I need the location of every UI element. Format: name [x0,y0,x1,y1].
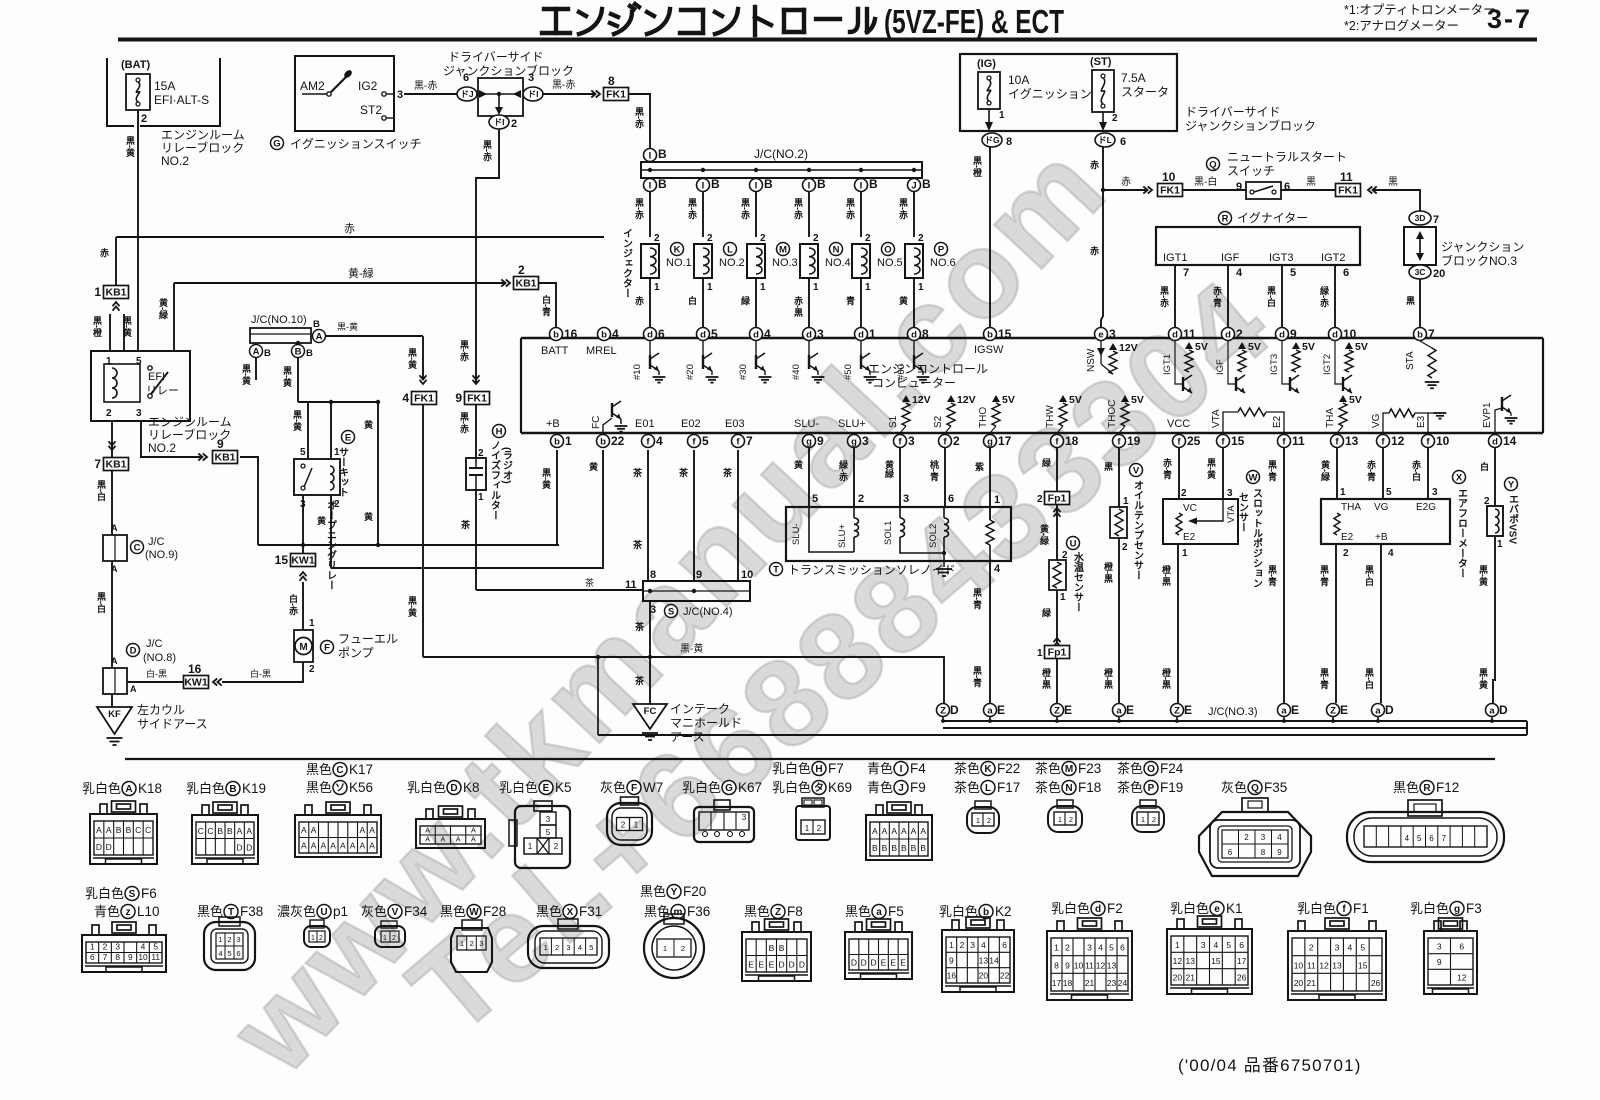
svg-text:g: g [1454,904,1460,915]
svg-text:乳白色: 乳白色 [499,780,538,795]
svg-text:赤-青: 赤-青 [1212,285,1222,308]
svg-text:5: 5 [1417,834,1422,843]
svg-text:R: R [1222,213,1229,224]
svg-text:B: B [658,177,667,191]
svg-text:KW1: KW1 [184,677,207,689]
svg-text:E2: E2 [1272,415,1283,428]
svg-text:THA: THA [1325,408,1336,428]
svg-text:e: e [1098,329,1103,340]
svg-text:2: 2 [918,233,924,244]
svg-text:M: M [1065,764,1073,775]
ECU top pin d1 [855,327,877,341]
svg-text:b: b [554,436,560,447]
svg-text:3: 3 [817,327,824,341]
svg-text:Fp1: Fp1 [1048,647,1067,659]
svg-text:2: 2 [1236,327,1243,341]
svg-text:A: A [920,826,926,836]
svg-text:1: 1 [565,434,572,448]
svg-text:19: 19 [1127,434,1141,448]
svg-text:17: 17 [1237,956,1247,966]
svg-text:A: A [911,826,917,836]
connector Q F35 [1199,798,1311,876]
svg-text:乳白色: 乳白色 [85,886,124,901]
svg-text:20: 20 [1173,972,1183,982]
svg-text:I: I [860,180,863,191]
svg-text:1: 1 [634,820,639,829]
svg-text:1: 1 [707,282,713,293]
svg-text:白: 白 [687,295,697,306]
svg-text:黒-黄: 黒-黄 [1478,565,1488,587]
svg-text:ニュートラルスタート: ニュートラルスタート [1227,150,1347,164]
wire FK1 11 to junction block NO.3 [1374,190,1420,211]
svg-text:FK1: FK1 [467,393,487,405]
svg-text:A: A [369,841,375,851]
svg-text:9: 9 [455,391,462,405]
W label throttle position sensor [1247,471,1260,484]
pin I B bottom x=756 [750,177,774,192]
ECU bottom pin f4 [642,434,664,448]
svg-text:N: N [1065,783,1072,794]
svg-text:A: A [301,825,307,835]
svg-text:C: C [336,765,343,776]
svg-text:黒-青: 黒-青 [972,588,982,610]
legend f F1 [1297,901,1369,916]
svg-text:11: 11 [1292,434,1305,448]
svg-text:11: 11 [1183,327,1196,341]
svg-text:3: 3 [1087,943,1092,953]
svg-text:d: d [858,329,864,340]
svg-text:黒-黄: 黒-黄 [122,316,132,338]
svg-text:X: X [567,907,574,918]
svg-text:1: 1 [976,816,980,825]
svg-text:ポンプ: ポンプ [338,646,374,660]
wire FK1 to switch [1183,189,1246,191]
svg-text:d: d [1492,436,1498,447]
svg-text:A: A [340,841,346,851]
svg-text:茶色: 茶色 [1035,761,1061,776]
svg-text:(IG): (IG) [977,58,996,70]
svg-text:2: 2 [858,493,864,505]
svg-text:A: A [237,826,243,836]
svg-text:3C: 3C [1415,267,1426,277]
pin A of J/C NO.10 [250,345,263,358]
svg-text:ドI: ドI [528,89,539,99]
ECU top pin b4 [598,327,620,341]
svg-text:15: 15 [275,553,289,567]
ECU right edge [1542,338,1544,433]
svg-text:4: 4 [1277,833,1282,842]
ECU top pin d11 [1169,327,1197,341]
svg-text:SOL2: SOL2 [928,524,939,548]
wire B pin down to relay feeds [297,358,299,402]
svg-text:L10: L10 [137,904,160,919]
svg-text:F34: F34 [404,904,428,919]
svg-text:2: 2 [1181,488,1187,499]
svg-text:E2: E2 [1183,532,1196,543]
svg-text:4: 4 [612,327,619,341]
svg-text:黄: 黄 [363,419,373,430]
svg-text:10: 10 [741,569,753,581]
svg-text:2: 2 [106,408,112,419]
legend ta K69 [772,780,852,795]
svg-text:2: 2 [470,939,474,948]
svg-text:K: K [984,764,992,775]
svg-text:C: C [145,825,151,835]
svg-text:3: 3 [1432,487,1438,498]
ECU bottom pin g3 [848,434,870,448]
svg-text:d: d [806,329,812,340]
wire FK1 9 to noise filter [475,404,477,458]
svg-text:8: 8 [1054,960,1059,970]
svg-text:2: 2 [511,118,517,130]
svg-text:IGF: IGF [1221,252,1240,264]
wire relay E pin3 down to KW1 15 net [302,495,304,554]
svg-text:4: 4 [141,942,146,952]
connector 16 KW1 [184,662,209,689]
svg-text:緑: 緑 [1041,607,1052,618]
wire igniter x=1228 [1227,265,1229,328]
svg-text:黒色: 黒色 [644,904,670,919]
svg-text:NO.1: NO.1 [666,257,692,269]
svg-text:12V: 12V [1119,342,1138,354]
svg-text:黒-黄: 黒-黄 [241,364,251,386]
wire to injector NO.1 [649,192,651,237]
svg-text:NO.5: NO.5 [877,257,903,269]
svg-text:濃灰色: 濃灰色 [277,904,316,919]
svg-text:K18: K18 [138,781,162,796]
svg-text:9: 9 [128,952,133,962]
svg-text:F18: F18 [1078,780,1101,795]
connector W F28 [451,920,492,972]
svg-text:SLU+: SLU+ [837,524,848,548]
svg-text:4: 4 [656,434,663,448]
connector 7 KB1 [109,441,116,450]
svg-text:ノイズフィルター: ノイズフィルター [489,440,501,520]
svg-text:B: B [779,943,785,953]
svg-text:17: 17 [1052,978,1062,988]
svg-text:VTA: VTA [1211,409,1222,428]
svg-text:21: 21 [1307,978,1317,988]
svg-text:KB1: KB1 [214,452,235,464]
wire red feed horizontal [116,236,604,238]
legend Y F20 [640,884,706,899]
igniter R label [1219,212,1232,225]
svg-text:5V: 5V [1069,394,1082,406]
svg-text:P: P [938,244,945,255]
connector B K19 [192,802,258,864]
wire 4 FK1 [420,375,427,384]
legend b K2 [939,904,1012,919]
svg-text:1: 1 [218,935,222,944]
svg-text:コンピューター: コンピューター [872,376,956,390]
svg-text:白-青: 白-青 [541,294,551,317]
svg-text:E: E [997,703,1005,717]
junction J/C(NO.9) [103,535,127,561]
svg-text:7: 7 [1183,267,1189,279]
svg-text:1: 1 [994,494,1000,506]
label E2 resistor [1238,408,1266,416]
svg-text:黒-赤: 黒-赤 [634,198,644,220]
ECU top bus [521,337,1543,339]
svg-text:青色: 青色 [94,904,120,919]
svg-text:茶色: 茶色 [1117,761,1143,776]
svg-text:D: D [789,959,795,969]
pin 3 of IG2 [386,93,394,95]
connector V F34 [375,921,405,947]
svg-text:V: V [392,907,399,918]
svg-text:R: R [1423,783,1431,794]
svg-text:d: d [700,329,706,340]
svg-text:D: D [1499,703,1508,717]
X label air flow meter [1453,471,1466,484]
svg-text:P: P [1148,783,1155,794]
wire FC pin down and left [331,450,603,568]
evap VSV Y circuit [1494,447,1496,506]
svg-text:E: E [890,958,896,968]
svg-text:5: 5 [227,949,231,958]
J/C(NO.3) pin a E x=1284 [1278,703,1300,717]
svg-text:A: A [901,826,907,836]
svg-text:2: 2 [392,935,396,942]
svg-text:A: A [425,825,430,834]
ECU internal FC transistor [612,401,621,419]
svg-text:12V: 12V [912,394,931,406]
svg-text:D: D [450,783,457,794]
svg-text:I: I [808,180,811,191]
svg-text:3: 3 [528,72,534,84]
svg-text:6: 6 [1284,181,1290,193]
svg-text:A: A [360,825,366,835]
svg-text:12: 12 [1457,973,1467,983]
svg-text:20: 20 [979,971,989,981]
svg-text:黒-青: 黒-青 [1319,565,1329,587]
svg-text:緑-赤: 緑-赤 [838,459,849,482]
svg-text:E: E [345,432,351,443]
svg-text:2: 2 [960,940,965,950]
svg-text:THW: THW [1045,405,1056,428]
svg-text:S: S [668,606,674,617]
svg-text:D: D [130,645,137,656]
svg-text:NO.6: NO.6 [930,257,956,269]
svg-text:K2: K2 [995,904,1012,919]
connector D K8 [416,806,485,848]
svg-text:3D: 3D [1415,213,1426,223]
legend Z F8 [744,904,803,919]
svg-text:2: 2 [760,233,766,244]
svg-text:F36: F36 [687,904,710,919]
svg-text:a: a [987,705,993,716]
svg-text:2: 2 [1069,815,1073,824]
svg-text:イグナイター: イグナイター [1237,211,1308,225]
wire to circuit opening relay pin 5 [307,402,309,459]
svg-text:フューエル: フューエル [338,632,398,646]
svg-text:17: 17 [998,434,1012,448]
svg-text:緑: 緑 [740,295,751,306]
svg-text:黒-黄: 黒-黄 [1206,458,1216,480]
svg-text:IGF: IGF [1215,359,1226,375]
svg-text:5: 5 [702,434,709,448]
svg-text:1: 1 [1058,815,1062,824]
svg-text:K5: K5 [555,780,572,795]
svg-text:ドI: ドI [494,117,505,127]
svg-text:E: E [1126,703,1134,717]
svg-text:13: 13 [1107,960,1117,970]
J/C(NO.3) pin a D x=1378 [1372,703,1395,717]
svg-text:白-黒: 白-黒 [146,668,167,679]
svg-text:B: B [711,177,720,191]
svg-text:THO: THO [978,407,989,428]
svg-text:10: 10 [1294,960,1304,970]
svg-text:(NO.8): (NO.8) [143,652,176,664]
svg-text:A: A [872,826,878,836]
svg-text:L: L [985,783,991,794]
wire E02 to J/C NO.4 [693,450,695,581]
svg-text:6: 6 [1228,848,1233,857]
svg-text:A: A [311,841,317,851]
air flow meter X circuit [1336,447,1338,499]
svg-text:茶: 茶 [678,467,689,478]
svg-text:1: 1 [1340,487,1346,498]
svg-text:E: E [1064,703,1072,717]
svg-text:D: D [96,842,102,852]
svg-text:黄-緑: 黄-緑 [158,297,169,320]
wire to injector NO.2 [702,192,704,237]
svg-text:赤-青: 赤-青 [1366,459,1376,482]
wire FK1 to J/C NO.2 [629,94,650,148]
svg-text:H: H [496,426,503,437]
svg-text:10: 10 [1162,170,1176,184]
svg-text:FC: FC [644,706,657,717]
arrows in junction box [477,93,521,95]
legend B K19 [186,781,266,796]
legend P F19 [1117,780,1183,795]
svg-text:4: 4 [578,943,582,952]
svg-text:3: 3 [903,493,909,505]
svg-text:黒: 黒 [1103,462,1113,472]
junction block small box [478,78,523,116]
svg-text:橙-黒: 橙-黒 [1161,667,1172,690]
svg-text:m: m [674,907,683,918]
svg-text:C: C [207,826,213,836]
svg-text:3: 3 [1261,833,1266,842]
connector 1 KB1 [94,285,128,299]
svg-text:5V: 5V [1131,394,1144,406]
connector 9 KB1 [198,454,207,461]
svg-text:22: 22 [1000,971,1010,981]
svg-text:(BAT): (BAT) [121,59,150,71]
svg-text:8: 8 [922,327,929,341]
svg-text:エアフローメーター: エアフローメーター [1456,488,1468,578]
svg-text:J: J [911,180,916,191]
wire black-yellow from J/C NO.10 [326,335,423,337]
svg-text:13: 13 [979,955,989,965]
connector C K17 / K56 [295,802,381,857]
ECU transistor #50 [860,341,862,356]
svg-text:p1: p1 [333,904,348,919]
svg-text:12: 12 [1391,434,1405,448]
connector T F38 [204,917,255,970]
svg-text:5: 5 [300,447,306,458]
svg-text:20: 20 [1433,268,1445,280]
svg-text:B: B [126,825,132,835]
svg-text:5: 5 [153,942,158,952]
svg-text:1: 1 [1123,496,1129,507]
svg-text:18: 18 [1065,434,1079,448]
wire KB1 to BATT pin [538,283,556,327]
svg-text:サーキット: サーキット [337,447,349,497]
svg-text:11: 11 [1340,170,1353,184]
svg-text:白-黒: 白-黒 [250,668,271,679]
svg-text:26: 26 [1371,978,1381,988]
svg-text:インテーク: インテーク [670,702,730,716]
svg-text:F4: F4 [910,761,926,776]
ECU top pin b15 [984,327,1012,341]
svg-text:赤: 赤 [634,295,644,306]
svg-text:NSW: NSW [1086,348,1097,372]
svg-text:1: 1 [1497,539,1503,550]
svg-text:5: 5 [711,327,718,341]
svg-text:1: 1 [999,110,1005,121]
svg-text:1: 1 [460,939,464,948]
connector A K18 [90,801,157,864]
connector 15 KW1 [300,572,307,581]
legend a F5 [845,904,904,919]
junction block NO.3 [1404,227,1436,265]
connector O/P F24 F19 [1132,800,1164,832]
svg-text:IGSW: IGSW [974,344,1004,356]
svg-text:6: 6 [1239,940,1244,950]
svg-text:赤-黒: 赤-黒 [793,295,803,318]
svg-text:F23: F23 [1078,761,1101,776]
svg-text:14: 14 [989,955,999,965]
legend M F23 [1035,761,1101,776]
svg-text:乳白色: 乳白色 [186,781,225,796]
svg-text:d: d [1225,329,1231,340]
svg-text:B: B [217,826,223,836]
svg-text:#20: #20 [685,364,696,380]
svg-text:D: D [779,959,785,969]
connector F W7 [607,797,652,845]
connector d F2 [1047,918,1132,1000]
ECU bottom pin g9 [803,434,825,448]
svg-text:黒: 黒 [1388,176,1398,188]
svg-text:B: B [116,825,122,835]
pin I B bottom x=861 [855,177,879,192]
svg-text:B: B [764,177,773,191]
wire 9KB1 to +B rail [240,457,258,545]
wire fuse down to EFI relay [137,110,139,351]
svg-text:b: b [1417,329,1423,340]
svg-text:z: z [126,907,131,918]
svg-text:A: A [111,656,118,666]
svg-text:C: C [134,542,141,553]
svg-text:+B: +B [1375,532,1388,543]
svg-text:J/C(NO.4): J/C(NO.4) [683,606,733,618]
svg-text:2: 2 [654,233,660,244]
legend W F28 [440,904,506,919]
svg-text:H: H [815,764,822,775]
svg-text:1: 1 [1141,815,1145,824]
svg-text:A: A [106,825,112,835]
svg-text:Z: Z [1174,705,1180,716]
svg-text:3: 3 [1227,488,1233,499]
connector M/N F23 F18 [1048,800,1082,832]
legend I F4 [867,761,926,776]
svg-text:3: 3 [136,408,142,419]
svg-text:2: 2 [1244,833,1249,842]
svg-text:E02: E02 [681,418,701,430]
svg-text:N: N [833,244,840,255]
